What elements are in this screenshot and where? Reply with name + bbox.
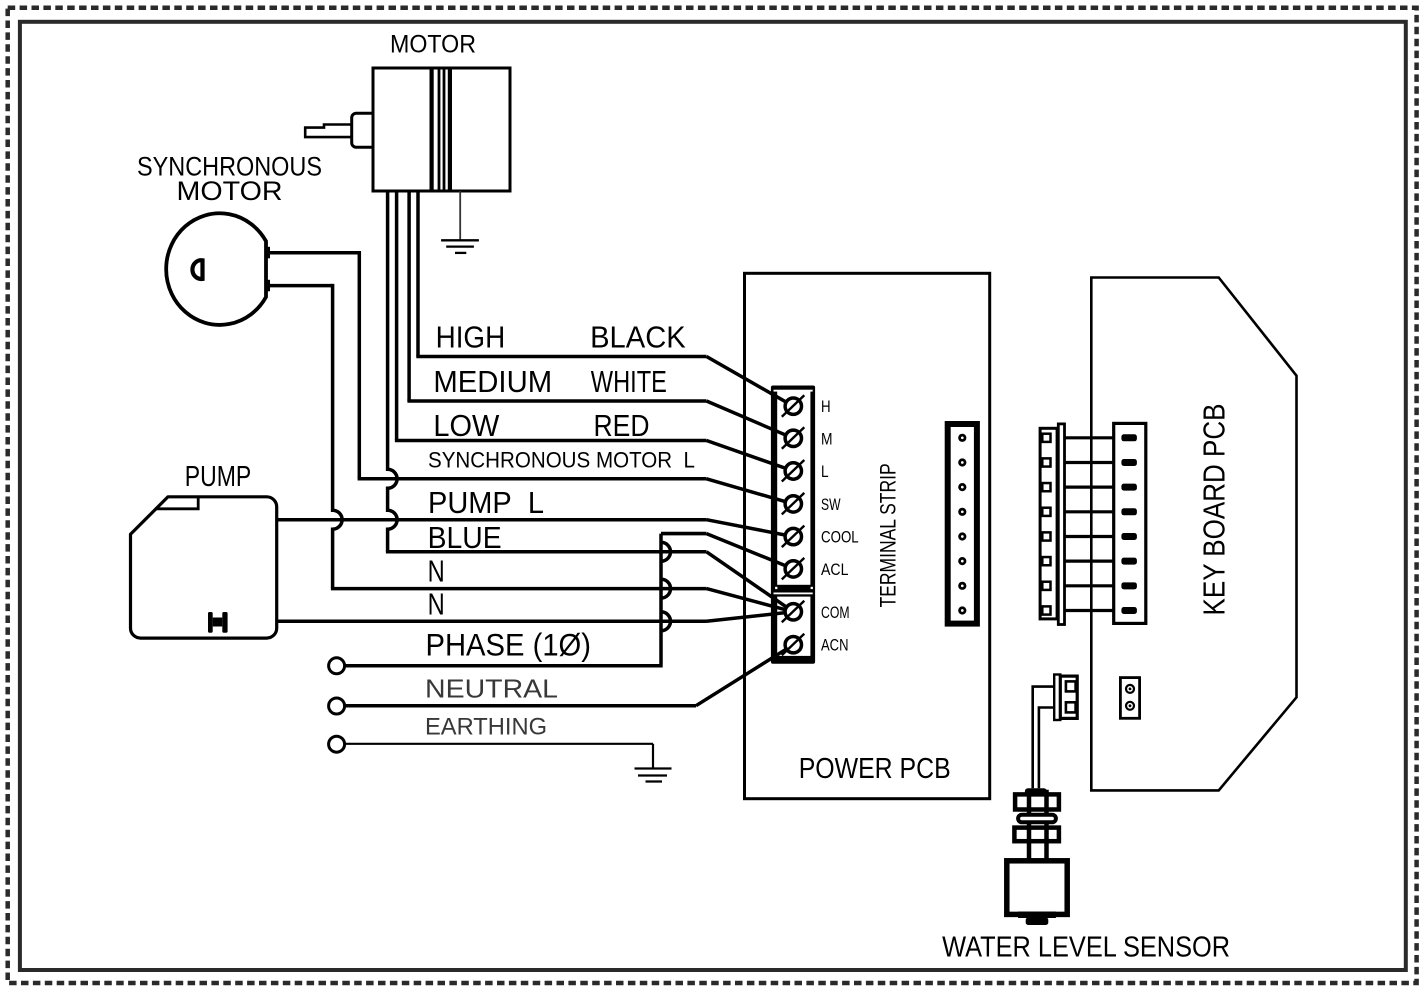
svg-text:EARTHING: EARTHING	[425, 714, 547, 741]
svg-text:ACL: ACL	[821, 560, 848, 579]
svg-text:M: M	[821, 429, 833, 448]
svg-text:H: H	[821, 397, 831, 416]
svg-text:BLACK: BLACK	[590, 319, 686, 354]
svg-text:LOW: LOW	[433, 408, 500, 443]
svg-text:MOTOR: MOTOR	[390, 31, 476, 59]
svg-text:SYNCHRONOUS MOTOR L: SYNCHRONOUS MOTOR L	[428, 448, 695, 473]
svg-text:ACN: ACN	[821, 636, 849, 655]
svg-text:POWER PCB: POWER PCB	[799, 753, 951, 785]
svg-text:TERMINAL STRIP: TERMINAL STRIP	[876, 463, 901, 607]
svg-text:PUMP L: PUMP L	[428, 485, 544, 520]
svg-text:PUMP: PUMP	[185, 461, 251, 493]
svg-text:KEY BOARD PCB: KEY BOARD PCB	[1197, 404, 1232, 616]
svg-text:BLUE: BLUE	[428, 520, 502, 555]
svg-text:N: N	[428, 553, 445, 588]
svg-text:WATER LEVEL SENSOR: WATER LEVEL SENSOR	[942, 931, 1230, 963]
svg-text:RED: RED	[594, 408, 650, 443]
svg-text:MEDIUM: MEDIUM	[433, 364, 552, 399]
svg-text:SW: SW	[821, 495, 841, 514]
svg-text:COM: COM	[821, 603, 850, 622]
svg-text:MOTOR: MOTOR	[177, 176, 283, 206]
svg-text:WHITE: WHITE	[591, 364, 667, 399]
svg-text:HIGH: HIGH	[436, 319, 506, 354]
svg-text:L: L	[821, 462, 829, 481]
svg-text:N: N	[428, 587, 445, 622]
svg-text:NEUTRAL: NEUTRAL	[425, 674, 558, 704]
svg-text:PHASE (1Ø): PHASE (1Ø)	[426, 627, 592, 663]
svg-text:COOL: COOL	[821, 528, 859, 547]
